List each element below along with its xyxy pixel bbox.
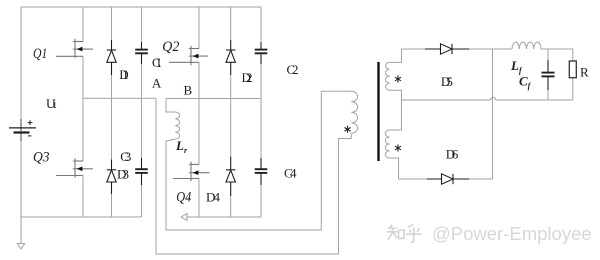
svg-text:C4: C4 [284, 166, 297, 181]
svg-text:D5: D5 [441, 74, 453, 89]
svg-text:Lf: Lf [510, 58, 523, 75]
svg-text:Q4: Q4 [176, 188, 191, 204]
svg-text:Q2: Q2 [162, 39, 179, 56]
svg-text:Ui: Ui [46, 96, 57, 111]
svg-text:C2: C2 [287, 62, 299, 77]
svg-text:C3: C3 [120, 149, 131, 164]
svg-text:A: A [152, 75, 162, 90]
svg-text:Q3: Q3 [33, 149, 49, 166]
svg-text:D2: D2 [242, 70, 253, 85]
svg-text:B: B [184, 82, 193, 97]
svg-text:Q1: Q1 [33, 45, 47, 62]
svg-text:D3: D3 [117, 167, 129, 182]
svg-text:@Power-Employee: @Power-Employee [432, 223, 592, 244]
svg-text:Cf: Cf [519, 74, 532, 91]
svg-text:D4: D4 [206, 190, 221, 205]
svg-text:C1: C1 [152, 55, 162, 70]
svg-text:Lr: Lr [175, 138, 188, 155]
svg-text:R: R [580, 64, 589, 79]
svg-text:D1: D1 [119, 67, 129, 82]
svg-text:D6: D6 [446, 147, 459, 162]
